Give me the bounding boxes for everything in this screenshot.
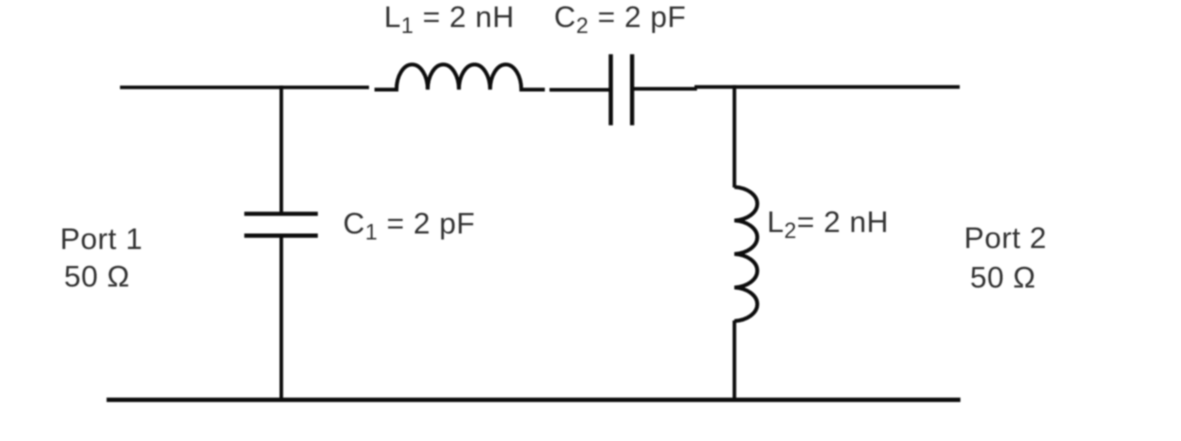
port 1 label: [60, 223, 143, 294]
wire L2 lower branch: [733, 321, 737, 400]
wire C2 to node B: [634, 87, 697, 91]
capacitor C2: [611, 54, 632, 125]
inductor L1: [375, 64, 545, 89]
node A (top wire / C1 branch junction): [279, 86, 283, 89]
wire top-left horizontal (Port 1 to node A): [120, 86, 369, 90]
wire bottom horizontal: [107, 398, 961, 402]
svg-text:Port 1: Port 1: [60, 223, 143, 256]
svg-text:L1 = 2 nH: L1 = 2 nH: [384, 1, 515, 38]
wire top-right horizontal (node B to Port 2): [695, 85, 960, 89]
svg-text:L2= 2 nH: L2= 2 nH: [767, 206, 889, 243]
svg-text:C1 = 2 pF: C1 = 2 pF: [343, 208, 475, 245]
port 2 label: [964, 222, 1047, 295]
value label L2 = 2 nH: [767, 206, 889, 243]
svg-text:C2 = 2 pF: C2 = 2 pF: [554, 1, 686, 38]
value label C1 = 2 pF: [343, 208, 475, 245]
svg-text:50 Ω: 50 Ω: [970, 262, 1036, 295]
wire between L1 and C2: [550, 88, 610, 92]
capacitor C1: [244, 214, 317, 236]
svg-text:Port 2: Port 2: [964, 222, 1047, 255]
value label L1 = 2 nH: [384, 1, 515, 38]
wire C1 upper branch: [279, 87, 283, 213]
inductor L2: [734, 187, 757, 321]
svg-text:50 Ω: 50 Ω: [64, 261, 130, 294]
value label C2 = 2 pF: [554, 1, 686, 38]
wire L2 upper branch: [733, 87, 737, 188]
node B (top wire / L2 branch junction): [733, 85, 737, 89]
wire C1 lower branch: [279, 236, 283, 400]
